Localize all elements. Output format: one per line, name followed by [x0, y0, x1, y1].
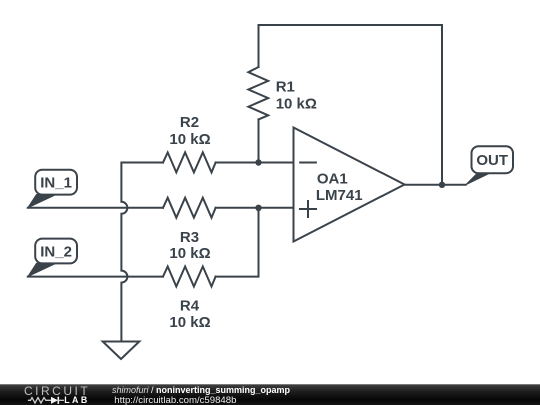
wire: op-amp output to OUT flag — [405, 184, 466, 186]
op-amp minus input symbol — [300, 162, 316, 164]
svg-text:10 kΩ: 10 kΩ — [169, 314, 210, 331]
node: output junction — [439, 182, 445, 188]
wire: feedback loop top (R1 top lead, top rail, right rail down to output node) — [259, 25, 443, 185]
CircuitLab logo resistor squiggle — [28, 398, 51, 403]
footer bar — [0, 384, 540, 405]
svg-text:R1: R1 — [276, 79, 295, 96]
resistor R4 zigzag (horizontal) — [163, 267, 216, 287]
node: non-inverting input junction — [255, 205, 261, 211]
svg-text:R3: R3 — [180, 229, 199, 246]
wire: R3 right lead through node to op-amp non-inverting input — [216, 207, 294, 209]
node: inverting input junction — [255, 159, 261, 165]
svg-text:R2: R2 — [180, 114, 199, 131]
wire: R2 right lead through node to op-amp inverting input — [216, 162, 294, 164]
wire: R4 right lead up to non-inverting node — [216, 208, 259, 277]
svg-text:10 kΩ: 10 kΩ — [169, 131, 210, 148]
flag OUT — [466, 146, 513, 185]
resistor R3 zigzag (horizontal) — [163, 198, 216, 218]
wire: ground branch left of R2 with hops over IN_1 and IN_2 wires — [121, 163, 163, 342]
svg-text:10 kΩ: 10 kΩ — [276, 96, 317, 113]
resistor R1 zigzag (vertical) — [248, 67, 268, 119]
flag IN_1 — [28, 170, 77, 208]
svg-text:R4: R4 — [180, 298, 200, 315]
svg-text:IN_2: IN_2 — [40, 244, 72, 261]
CircuitLab logo diode symbol — [51, 397, 58, 404]
svg-text:OA1: OA1 — [317, 171, 348, 188]
wire: IN_2 to R4 left lead — [28, 276, 163, 278]
op-amp plus input symbol — [300, 201, 316, 217]
svg-text:OUT: OUT — [476, 152, 508, 169]
svg-text:LM741: LM741 — [316, 187, 363, 204]
wire: R1 bottom lead to inverting node — [258, 119, 260, 162]
svg-text:10 kΩ: 10 kΩ — [169, 245, 210, 262]
ground symbol — [103, 342, 140, 360]
svg-text:IN_1: IN_1 — [40, 175, 72, 192]
op-amp OA1 triangle body — [294, 128, 405, 242]
svg-text:LAB: LAB — [64, 395, 89, 405]
svg-text:http://circuitlab.com/c59848b: http://circuitlab.com/c59848b — [114, 395, 236, 405]
svg-text:shimofuri / noninverting_summi: shimofuri / noninverting_summing_opamp — [112, 385, 291, 395]
wire: IN_1 to R3 left lead — [28, 207, 163, 209]
flag IN_2 — [28, 239, 77, 277]
resistor R2 zigzag (horizontal, inverting input to ground) — [163, 152, 216, 172]
